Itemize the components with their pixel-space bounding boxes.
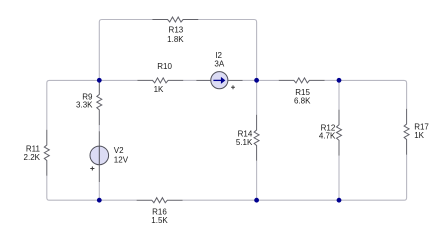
resistor R16	[137, 198, 183, 203]
resistor R15	[279, 78, 325, 83]
wire node E to node F	[257, 199, 339, 201]
wire node C to top-right corner down to R17	[339, 80, 407, 108]
wire I2 to node B	[243, 79, 257, 81]
svg-text:V2: V2	[114, 146, 124, 155]
wire left branch lower + bottom-left corner	[47, 176, 100, 200]
wire R15 to node C	[325, 79, 339, 81]
wire left branch upper: corner at top-left	[47, 80, 100, 129]
node F junction dot	[337, 198, 342, 203]
node A junction dot	[97, 78, 102, 83]
wire node B down to R14	[256, 80, 258, 114]
svg-text:1K: 1K	[414, 131, 424, 140]
wire node C down to R12	[338, 80, 340, 109]
svg-text:5.1K: 5.1K	[236, 138, 253, 147]
wire node B to R15	[257, 79, 279, 81]
svg-text:12V: 12V	[114, 156, 129, 165]
svg-text:3.3K: 3.3K	[76, 101, 93, 110]
svg-text:1.5K: 1.5K	[151, 216, 168, 225]
node C junction dot	[337, 78, 342, 83]
wire R14 to bottom node E	[256, 161, 258, 200]
svg-text:3A: 3A	[214, 59, 224, 68]
wire R10 to I2	[183, 79, 196, 81]
resistor R17	[404, 109, 409, 155]
svg-text:1.8K: 1.8K	[167, 35, 184, 44]
resistor R12	[337, 110, 342, 156]
current source I2	[196, 79, 211, 81]
wire R12 to node F	[338, 156, 340, 201]
svg-text:4.7K: 4.7K	[319, 132, 336, 141]
svg-text:R13: R13	[169, 26, 184, 35]
resistor R9	[97, 80, 102, 125]
resistor R14	[254, 115, 259, 161]
node D junction dot	[97, 198, 102, 203]
svg-text:1K: 1K	[154, 85, 164, 94]
wire mid horizontal node to R10	[99, 79, 137, 81]
wire bottom node D to R16	[99, 199, 136, 201]
svg-text:6.8K: 6.8K	[294, 96, 311, 105]
node B junction dot	[254, 78, 259, 83]
node E junction dot	[254, 198, 259, 203]
wire top-left vertical + top wire left part	[99, 20, 152, 81]
wire R9 to V2 short link	[98, 125, 100, 131]
wire V2 to bottom node D	[98, 182, 100, 200]
svg-text:R10: R10	[157, 62, 172, 71]
resistor R13	[152, 17, 198, 22]
wire top wire right part + corner down to node	[198, 20, 256, 81]
resistor R11	[44, 130, 49, 176]
resistor R10	[137, 78, 183, 83]
voltage source V2	[98, 131, 100, 146]
wire R17 to bottom-right corner to node F	[339, 155, 407, 200]
svg-text:2.2K: 2.2K	[24, 153, 41, 162]
wire R16 to node E	[183, 199, 257, 201]
